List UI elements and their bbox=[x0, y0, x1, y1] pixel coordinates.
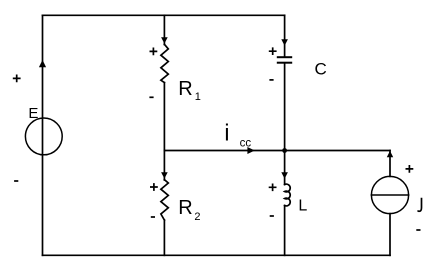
wire R1 lower lead bbox=[163, 83, 165, 151]
wire J upper lead bbox=[389, 151, 391, 177]
polarity - of R1 bbox=[149, 96, 153, 98]
wire top rail bbox=[43, 14, 285, 16]
junction node dot bbox=[282, 148, 287, 153]
svg-text:2: 2 bbox=[194, 211, 200, 223]
arrow current up out of J bbox=[387, 151, 393, 158]
polarity + of R1 bbox=[150, 48, 158, 56]
capacitor C plates bbox=[278, 57, 291, 63]
resistor R2 bbox=[161, 180, 168, 220]
wire R2 lower lead bbox=[163, 220, 165, 255]
polarity - of C bbox=[269, 79, 273, 81]
wire R2 upper lead bbox=[163, 151, 165, 181]
polarity + of L bbox=[269, 183, 277, 191]
arrow current down into L bbox=[281, 172, 288, 178]
current source J circle with bar bbox=[371, 176, 408, 213]
polarity + of E bbox=[13, 75, 21, 83]
wire R1 upper lead bbox=[163, 15, 165, 44]
wire C upper lead bbox=[284, 15, 286, 56]
polarity + of R2 bbox=[150, 183, 158, 191]
svg-text:cc: cc bbox=[240, 138, 252, 150]
arrow current up on E branch bbox=[39, 60, 46, 67]
arrow current down into R2 bbox=[161, 172, 168, 178]
arrow current down into C bbox=[281, 39, 288, 46]
wire C lower lead bbox=[284, 64, 286, 151]
wire bottom rail bbox=[43, 254, 391, 256]
polarity + of C bbox=[269, 47, 277, 55]
wire middle branch i_cc bbox=[164, 150, 390, 152]
polarity - of L bbox=[270, 215, 274, 217]
svg-text:R: R bbox=[178, 197, 192, 219]
polarity - of E bbox=[14, 180, 18, 182]
wire left branch (E) bbox=[42, 15, 44, 255]
svg-text:R: R bbox=[178, 78, 192, 100]
svg-text:L: L bbox=[298, 197, 307, 214]
polarity - of J bbox=[416, 229, 420, 231]
svg-text:E: E bbox=[28, 105, 38, 122]
inductor L coil bbox=[285, 184, 291, 206]
resistor R1 bbox=[161, 44, 168, 82]
polarity + of J bbox=[406, 165, 414, 173]
svg-text:1: 1 bbox=[195, 91, 201, 103]
svg-text:C: C bbox=[315, 60, 327, 79]
polarity - of R2 bbox=[151, 216, 155, 218]
wire J lower lead bbox=[389, 214, 391, 256]
label J bbox=[418, 198, 422, 212]
arrow i_cc right on middle wire bbox=[247, 147, 254, 154]
svg-text:i: i bbox=[224, 120, 229, 146]
wire L lower lead bbox=[284, 206, 286, 256]
wire L upper lead bbox=[284, 151, 286, 185]
voltage source E circle bbox=[25, 118, 62, 155]
arrow current down into R1 bbox=[161, 37, 168, 43]
